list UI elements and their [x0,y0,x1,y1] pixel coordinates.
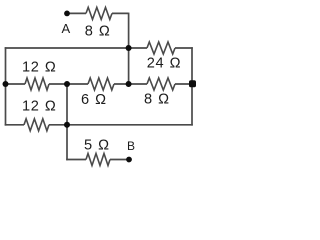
resistor 24ohm zigzag [147,42,175,54]
svg-text:A: A [62,21,71,36]
junction rail2 / top branch [126,45,132,51]
svg-text:B: B [127,139,135,153]
wire rail4 left segment [5,124,24,126]
wire vertical middle branch [66,84,68,160]
svg-text:8 Ω: 8 Ω [144,92,170,108]
resistor 6ohm zigzag [88,78,114,90]
junction rail3 / middle branch [64,81,70,87]
wire right vertical [191,47,193,125]
svg-text:8 Ω: 8 Ω [85,24,111,40]
node B terminal dot [126,157,132,163]
wire rail3 segment a [6,83,26,85]
svg-text:12 Ω: 12 Ω [22,99,56,115]
resistor 12ohm upper zigzag [25,78,49,90]
wire rail3 segment d [175,83,192,85]
junction rail4 / middle branch [64,122,70,128]
wire top branch to corner [112,12,129,14]
resistor 8ohm lower zigzag [147,78,175,90]
resistor 5ohm zigzag [86,154,110,166]
wire rail2 left segment [5,47,147,49]
wire bottom branch lead [66,159,86,161]
svg-text:6 Ω: 6 Ω [81,92,107,108]
svg-text:12 Ω: 12 Ω [22,60,56,76]
svg-text:5 Ω: 5 Ω [84,137,110,153]
terminal square right [189,80,196,87]
wire top branch lead from A [68,12,86,14]
resistor 8ohm top zigzag [86,7,112,19]
wire rail4 right segment [49,124,193,126]
wire rail3 segment c [114,83,147,85]
wire rail2 right segment [175,47,193,49]
wire vertical from top branch down to middle rail [128,13,130,84]
wire left vertical [5,47,7,125]
node A terminal dot [64,11,70,17]
wire rail3 segment b [49,83,88,85]
wire bottom branch to B [110,159,128,161]
junction rail3 / top vertical [126,81,132,87]
junction rail3 left [3,81,9,87]
svg-text:24 Ω: 24 Ω [147,56,181,72]
resistor 12ohm lower zigzag [24,119,49,131]
